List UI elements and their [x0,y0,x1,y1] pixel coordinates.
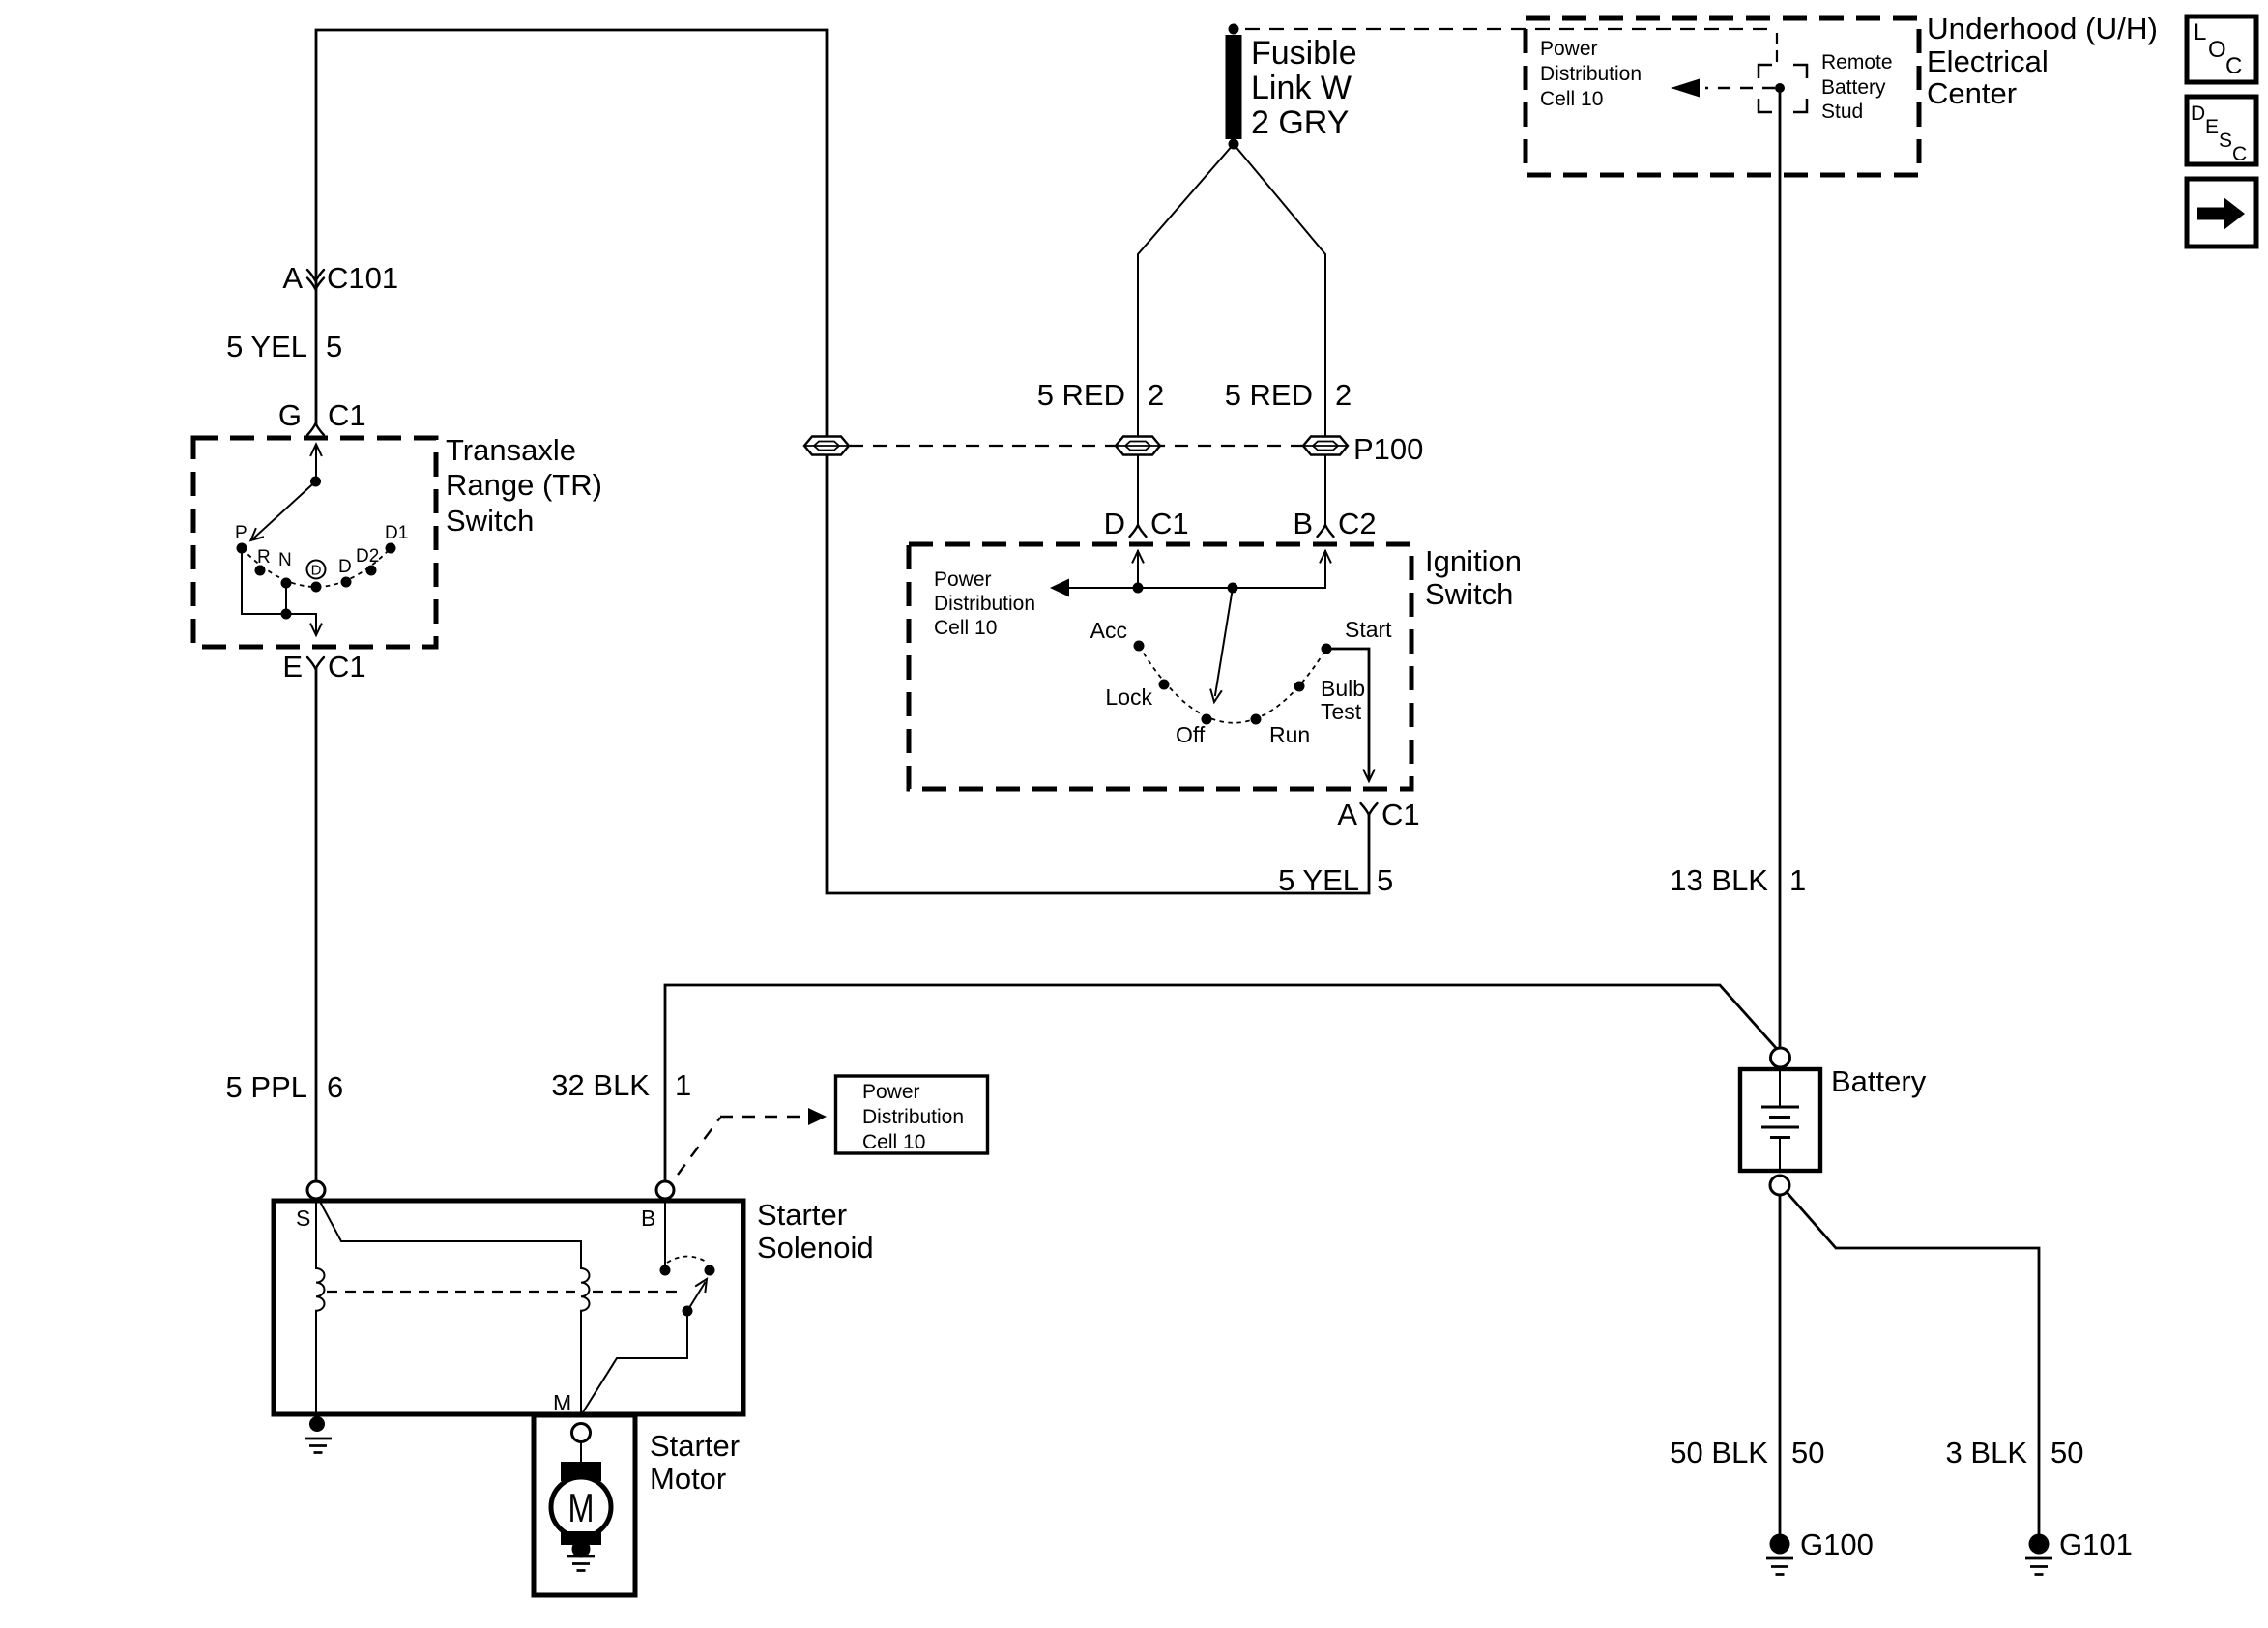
svg-text:2 GRY: 2 GRY [1251,104,1349,141]
ground dot (solenoid) [309,1416,325,1432]
wire: S diagonal to pull-in coil [319,1200,581,1268]
starter solenoid box [274,1201,743,1414]
ignition: rotor arm arrow to Off [1215,588,1233,695]
wire: battery negative to G100 [1779,1195,1782,1535]
connector C2 pin B (fork) [1318,525,1334,537]
svg-text:Cell 10: Cell 10 [934,617,997,639]
svg-text:Power: Power [1540,38,1598,60]
svg-text:Acc: Acc [1090,618,1127,643]
ignition contact Run [1251,714,1262,725]
svg-text:S: S [296,1206,310,1231]
ignition: entry arrow up (B C2) [1324,551,1326,588]
svg-text:Starter: Starter [650,1429,740,1463]
dashed reference arrow (32 BLK to Power Distribution) [678,1117,802,1175]
svg-text:5: 5 [1377,863,1393,897]
svg-text:Lock: Lock [1105,684,1152,710]
solenoid contact dashed bridge [667,1257,708,1264]
svg-text:50 BLK: 50 BLK [1670,1436,1768,1469]
wire: Start feed loop (A C1 down, left, up to top, right to A C101) [316,30,1369,893]
ignition contact Start [1322,644,1332,654]
svg-text:Off: Off [1176,722,1206,747]
motor M1: bottom brush [561,1531,601,1545]
harness grommet P100 (right 5 RED) [1303,437,1348,455]
battery box [1740,1069,1820,1171]
svg-text:D1: D1 [385,523,408,543]
svg-text:Starter: Starter [757,1198,847,1232]
battery internal wires [1779,1069,1781,1171]
motor M1: body circle [551,1477,611,1537]
wire: coil L2 down to M [580,1311,582,1414]
svg-text:5 RED: 5 RED [1225,378,1313,412]
dashed reference arrow (stud to Power Distribution) [1705,87,1775,89]
ignition: arrow to Power Distribution [1050,579,1069,597]
legend LOC box [2187,16,2256,82]
svg-text:Stud: Stud [1821,101,1863,123]
TR switch: exit wire with down arrow [286,614,316,633]
svg-text:C1: C1 [1381,798,1420,831]
svg-text:Transaxle: Transaxle [446,433,576,467]
Underhood Electrical Center dashed box [1526,18,1919,175]
TR switch: N output wire [285,588,287,614]
svg-text:Distribution: Distribution [934,593,1035,615]
fusible link bottom dot [1229,139,1239,150]
svg-text:Cell 10: Cell 10 [1540,88,1603,110]
svg-text:50: 50 [1791,1436,1824,1469]
ignition: bus junction dot (rotor feed) [1228,583,1238,594]
solenoid contact (motor side) [705,1265,715,1276]
svg-text:Solenoid: Solenoid [757,1231,874,1265]
TR contact D1 [386,543,396,554]
svg-text:Power: Power [862,1081,920,1103]
svg-text:O: O [2208,37,2226,63]
harness grommet (left 5 RED) [1116,437,1160,455]
TR contact D2 [366,566,377,576]
svg-text:D: D [311,563,322,579]
dashed link between coils and plunger [327,1291,679,1293]
ground G101 dot [2029,1534,2050,1555]
svg-text:2: 2 [1148,378,1164,412]
wire: E C1 down to solenoid S [315,669,318,1180]
Ignition Switch dashed box [909,544,1411,789]
svg-text:C2: C2 [1338,507,1377,540]
svg-text:1: 1 [1789,863,1806,897]
svg-text:Battery: Battery [1821,76,1886,99]
svg-text:Switch: Switch [446,504,534,538]
solenoid plunger pivot dot [683,1306,693,1317]
legend arrow glyph [2197,197,2245,230]
legend arrow box [2187,179,2256,247]
svg-text:32 BLK: 32 BLK [551,1068,650,1102]
svg-text:50: 50 [2050,1436,2083,1469]
svg-text:C1: C1 [1150,507,1189,540]
svg-text:1: 1 [675,1068,691,1102]
coil L2 (pull-in winding) [581,1268,590,1311]
ground symbol G100 [1766,1558,1793,1575]
svg-text:G100: G100 [1800,1527,1874,1561]
svg-text:B: B [641,1206,655,1231]
svg-text:Electrical: Electrical [1927,44,2049,78]
TR contact D (plain) [341,577,352,588]
svg-text:Distribution: Distribution [1540,63,1642,85]
svg-text:Run: Run [1269,722,1310,747]
svg-text:Ignition: Ignition [1425,544,1522,578]
coil L1 (hold-in winding) [316,1268,325,1311]
connector C1 pin E (fork) [307,657,324,669]
TR switch: output junction dot [281,609,292,620]
TR contact R [255,566,266,576]
svg-text:D2: D2 [356,546,379,567]
wire: S to hold-in coil [315,1199,317,1268]
terminal B circle [656,1181,674,1199]
svg-text:5 YEL: 5 YEL [226,330,307,363]
wire: left branch to ignition D C1 [1137,455,1139,524]
TR switch: entry arrow up [315,445,317,481]
ignition: bus junction dot (D C1) [1133,583,1144,594]
ignition: Start output wire with down arrow [1326,649,1369,778]
svg-text:R: R [257,547,271,567]
svg-text:D: D [1104,507,1125,540]
svg-text:E: E [282,650,303,683]
wire: fusible link fan-out right branch [1234,144,1325,436]
TR contact N [281,578,292,589]
connector C1 pin A (fork) [1361,803,1378,815]
svg-text:Power: Power [934,568,992,591]
ignition contact Lock [1159,680,1170,690]
svg-text:Link W: Link W [1251,70,1352,106]
connector C101 (A, double chevron) [307,270,324,281]
wire: stud down to battery [1779,93,1782,1048]
fusible link top dot [1229,24,1239,35]
ignition: rotary contact arc dashed [1139,646,1326,723]
battery positive circle [1771,1048,1790,1067]
TR contact P [237,543,247,554]
svg-text:Start: Start [1345,617,1392,642]
svg-text:G101: G101 [2059,1527,2133,1561]
svg-text:Fusible: Fusible [1251,35,1357,72]
svg-text:P: P [235,523,247,543]
svg-text:C: C [2232,143,2247,165]
connector C1 pin G (fork) [307,423,324,435]
TR switch: P output wire [242,553,286,614]
svg-text:E: E [2205,116,2219,138]
wire: M to motor [580,1441,582,1464]
solenoid contact (B side) [660,1265,671,1276]
svg-text:13 BLK: 13 BLK [1670,863,1768,897]
svg-text:N: N [278,550,292,570]
svg-text:A: A [282,261,303,295]
svg-text:Underhood (U/H): Underhood (U/H) [1927,12,2158,45]
legend DESC box [2187,97,2256,164]
dashed harness line P100 [827,445,1325,447]
svg-text:S: S [2219,130,2232,152]
svg-text:Bulb: Bulb [1321,676,1365,701]
svg-text:G: G [278,398,302,432]
ignition contact Acc [1134,641,1145,652]
svg-text:B: B [1293,507,1313,540]
ground dot (motor) [572,1540,591,1558]
wire: battery negative branch to G101 [1787,1192,2039,1535]
svg-text:5 YEL: 5 YEL [1278,863,1359,897]
svg-text:Cell 10: Cell 10 [862,1131,925,1153]
terminal M circle [572,1424,591,1442]
terminal S circle [307,1181,325,1199]
connector C1 pin D (fork) [1130,525,1147,537]
svg-text:Battery: Battery [1831,1064,1927,1098]
svg-text:5 PPL: 5 PPL [226,1070,307,1104]
svg-text:C1: C1 [328,398,366,432]
svg-text:5 RED: 5 RED [1037,378,1125,412]
wire: B stub into solenoid [664,1199,666,1265]
solenoid plunger arm with arrowhead [687,1283,705,1311]
ground symbol (motor) [567,1556,595,1571]
svg-text:P100: P100 [1353,432,1423,466]
svg-text:C: C [2225,53,2242,79]
svg-text:C1: C1 [328,650,366,683]
battery negative circle [1770,1176,1789,1195]
starter motor box [534,1415,635,1595]
dashed line fusible link to U/H electrical center [1245,29,1777,62]
ignition contact Off [1202,714,1212,725]
svg-text:2: 2 [1335,378,1352,412]
svg-text:D: D [2191,102,2205,125]
TR contact D (circled) [311,582,322,593]
motor M1: top brush [561,1462,601,1481]
remote battery stud dashed box (corners) [1759,65,1807,112]
Transaxle Range switch dashed box [193,438,436,647]
svg-text:Distribution: Distribution [862,1106,964,1128]
fusible link W 2 GRY (bar) [1226,35,1242,139]
ground symbol (solenoid) [305,1439,332,1453]
svg-text:Range (TR): Range (TR) [446,468,602,502]
battery cell plates [1761,1107,1799,1138]
ignition: internal bus wire [1065,587,1325,589]
Power Distribution Cell 10 box (solid) [836,1076,988,1153]
harness grommet (on feed loop wire) [804,437,849,455]
TR switch: wiper junction dot [310,477,321,487]
svg-text:D: D [338,557,352,577]
svg-text:A: A [1337,798,1357,831]
ground G100 dot [1770,1534,1790,1555]
svg-text:M: M [568,1485,595,1530]
svg-text:3 BLK: 3 BLK [1946,1436,2028,1469]
ground symbol G101 [2025,1558,2052,1575]
svg-text:Motor: Motor [650,1462,726,1496]
TR switch: wiper arm to P with arrowhead [252,481,316,539]
remote battery stud dot [1775,83,1785,93]
svg-text:L: L [2194,19,2206,45]
svg-text:5: 5 [326,330,342,363]
svg-text:Center: Center [1927,76,2017,110]
ignition: entry arrow up (D C1) [1137,551,1139,588]
svg-text:Switch: Switch [1425,577,1513,611]
svg-text:C101: C101 [327,261,398,295]
wire: right branch to ignition B C2 [1324,455,1326,524]
svg-text:Test: Test [1321,699,1362,724]
svg-text:6: 6 [327,1070,343,1104]
wire: pivot down to M terminal [581,1311,687,1415]
wire: fusible link fan-out left branch [1138,144,1234,436]
svg-text:M: M [553,1390,571,1415]
ignition contact Bulb Test [1294,682,1305,692]
TR switch: contact arc dashed [242,548,391,587]
svg-text:Remote: Remote [1821,51,1893,73]
wire: coil L1 to ground [315,1311,317,1419]
wire: B up, across to battery [665,985,1777,1181]
